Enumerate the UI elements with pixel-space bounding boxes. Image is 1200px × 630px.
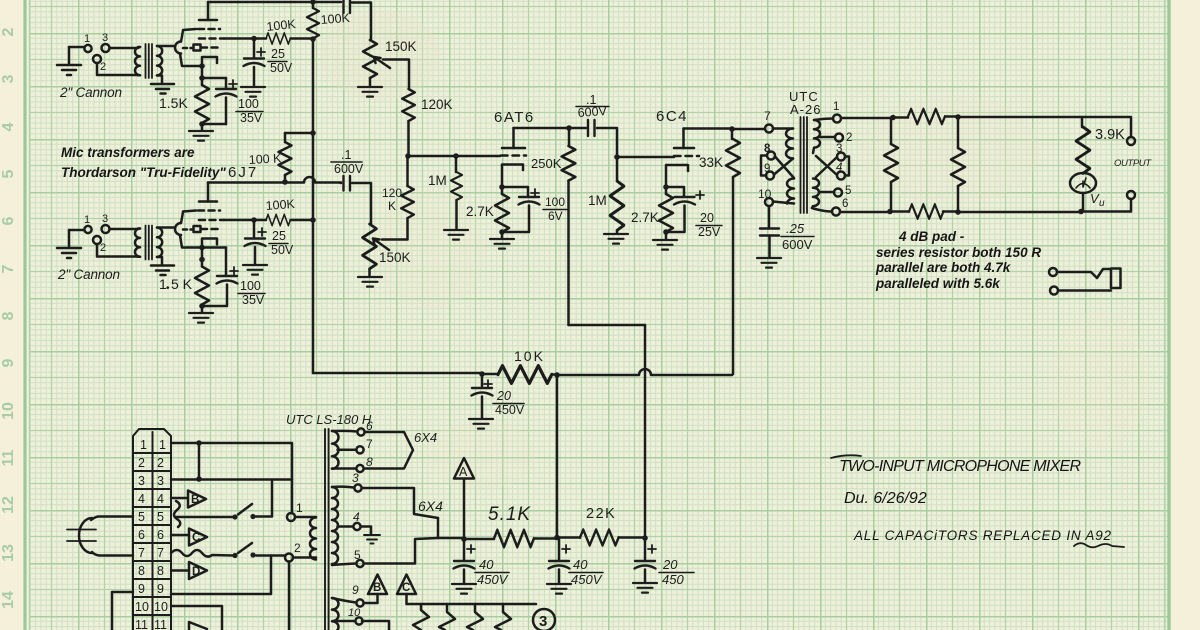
- svg-text:6: 6: [138, 528, 145, 542]
- svg-text:10: 10: [348, 607, 361, 619]
- strip outline: [133, 429, 171, 630]
- svg-text:150K: 150K: [385, 39, 417, 54]
- resistor R22 22K: [557, 536, 580, 539]
- connector J1 pin 2: [93, 55, 101, 63]
- svg-text:K: K: [388, 199, 396, 213]
- note: 4 dB pad annotation: [875, 229, 1041, 291]
- label 1.5K: [159, 95, 188, 111]
- svg-text:6: 6: [157, 528, 164, 542]
- transformer T2 core: [146, 226, 153, 260]
- label 5.1K (R21): [488, 504, 531, 525]
- resistor R3 1.5K (ch1 cathode): [201, 78, 204, 85]
- svg-text:9: 9: [764, 163, 770, 175]
- svg-text:2: 2: [294, 541, 301, 555]
- label 6X4 (top): [414, 430, 437, 445]
- capacitor C15 20/450 (right): [644, 538, 647, 560]
- wire row9 left leg: [112, 592, 133, 630]
- svg-text:3: 3: [138, 474, 145, 488]
- svg-text:2: 2: [100, 242, 106, 254]
- wire pin7 to primary: [773, 127, 793, 130]
- V4 cathode bracket: [666, 165, 688, 186]
- A triangle flag: [454, 458, 474, 539]
- V2 plate bar: [199, 200, 217, 203]
- svg-text:9: 9: [0, 358, 17, 367]
- buffer amp D: [189, 562, 207, 579]
- note: mic transformer annotation: [61, 145, 226, 180]
- svg-text:4 dB pad -: 4 dB pad -: [898, 229, 965, 244]
- wire mix bus (y156): [408, 155, 456, 158]
- V4 plate bar: [674, 147, 694, 150]
- resistor R20 10K: [482, 373, 498, 376]
- svg-text:1M: 1M: [588, 193, 607, 208]
- switch S2 (ch2 routing): [171, 550, 233, 557]
- V4 grid dashes: [674, 155, 699, 158]
- node (V4 cathode): [663, 184, 669, 190]
- svg-text:5: 5: [845, 185, 851, 197]
- svg-text:Mic transformers are: Mic transformers are: [61, 145, 195, 160]
- ground (C1): [241, 87, 265, 97]
- T3 secondary lower coil: [812, 179, 819, 209]
- wire pin1 to pad top rail: [841, 117, 893, 120]
- svg-text:6X4: 6X4: [418, 498, 443, 514]
- svg-text:35V: 35V: [242, 293, 265, 307]
- resistor R2 100K (ch1 screen, horizontal): [254, 37, 266, 40]
- pin labels J1: [84, 32, 108, 73]
- T3 pin 9 terminal: [766, 172, 774, 180]
- label 100K (R1): [320, 11, 351, 27]
- label 100K (R6): [265, 197, 296, 213]
- transformer T1 core: [146, 44, 153, 78]
- svg-text:1: 1: [84, 33, 90, 45]
- node A junction: [461, 536, 467, 542]
- T4 primary coil: [293, 517, 316, 558]
- partial amp (bottom cut): [189, 622, 207, 630]
- svg-text:5: 5: [0, 169, 17, 178]
- label Vu: [1090, 191, 1105, 209]
- mic cable entry: [79, 518, 92, 553]
- svg-text:100: 100: [238, 97, 259, 111]
- output terminal bottom: [1127, 191, 1135, 199]
- svg-text:3: 3: [539, 613, 547, 630]
- svg-text:1.5K: 1.5K: [159, 95, 188, 111]
- potentiometer VR1 150K (ch1): [363, 40, 377, 78]
- B+ bus vertical: [312, 39, 315, 373]
- transformer T2 primary coil: [135, 229, 140, 257]
- T4 sec winding 6-7-8 coil: [332, 431, 339, 469]
- wire pin2 to T2: [97, 244, 138, 257]
- svg-text:4: 4: [0, 122, 17, 131]
- secondary bracket pins 3-4: [845, 157, 849, 176]
- svg-text:11: 11: [135, 618, 148, 630]
- svg-text:ALL CAPACіTORS REPLACED IN A92: ALL CAPACіTORS REPLACED IN A92: [853, 528, 1111, 543]
- switch S1 (ch1 routing): [176, 516, 233, 519]
- label UTC A-26: [789, 89, 821, 117]
- V2 cathode lead: [180, 235, 202, 248]
- resistor R4 120K (ch1 mix): [402, 89, 415, 121]
- svg-text:11: 11: [154, 618, 167, 630]
- svg-text:3.9K: 3.9K: [1095, 127, 1125, 143]
- svg-text:7: 7: [157, 546, 164, 560]
- capacitor C11 .25/600V: [760, 229, 779, 236]
- T4 pin 4: [338, 525, 354, 528]
- svg-text:2: 2: [0, 27, 17, 36]
- svg-text:2.7K: 2.7K: [466, 204, 494, 219]
- T4 pin 7: [338, 449, 357, 452]
- svg-text:35V: 35V: [240, 111, 263, 125]
- svg-text:8: 8: [366, 455, 373, 469]
- buffer amp C: [189, 529, 207, 546]
- wire XLR2 pin1: [69, 229, 84, 232]
- label .1/600V (C9): [577, 93, 608, 120]
- svg-text:6V: 6V: [548, 209, 563, 223]
- wire VR1 wiper to R4: [383, 60, 409, 90]
- node mix bus: [405, 153, 411, 159]
- svg-text:3: 3: [352, 471, 359, 485]
- capacitor C2 100/35V (ch1 cathode bypass): [225, 78, 228, 88]
- transformer T2 secondary coil: [157, 228, 162, 257]
- T4 pin 9: [332, 598, 356, 603]
- label 20/25V (C10): [698, 211, 721, 239]
- svg-text:2: 2: [846, 132, 852, 144]
- resistor R11 250K (V3 plate load): [568, 128, 571, 146]
- svg-text:250K: 250K: [531, 156, 562, 171]
- resistor R5 100K (ch2 plate load, vertical): [284, 133, 287, 142]
- T3 pin 3 terminal: [837, 153, 845, 161]
- svg-text:150K: 150K: [379, 250, 411, 265]
- T3 pin 10 terminal: [765, 198, 773, 206]
- ground (VR1): [358, 78, 382, 97]
- svg-text:10: 10: [154, 600, 168, 614]
- wire pin10 to coil: [773, 202, 794, 204]
- svg-text:50V: 50V: [270, 61, 293, 75]
- ground (C12): [469, 419, 493, 429]
- svg-text:120: 120: [382, 186, 402, 200]
- svg-text:450: 450: [662, 572, 684, 587]
- svg-text:20: 20: [700, 211, 714, 225]
- svg-text:7: 7: [138, 546, 145, 560]
- label 100/35V ch2: [240, 279, 265, 307]
- pad top rail to output: [958, 117, 1131, 137]
- svg-text:Dи. 6/26/92: Dи. 6/26/92: [844, 490, 927, 507]
- wire row10 stub: [171, 606, 222, 630]
- svg-text:2: 2: [157, 456, 164, 470]
- output terminal top: [1127, 137, 1135, 145]
- svg-text:9: 9: [138, 582, 145, 596]
- T4 pin 10: [338, 620, 356, 623]
- coupling cap C3 (series, at top edge): [344, 0, 351, 13]
- V2 grid dashes row3: [183, 228, 192, 231]
- svg-text:.1: .1: [341, 148, 351, 162]
- ground (R10): [490, 232, 514, 249]
- V2 cathode top lead: [181, 211, 196, 224]
- wire flag C to pin10 + bottom rail: [407, 594, 537, 604]
- wire cable to row7: [92, 552, 133, 556]
- VR1 wiper arrow: [374, 57, 390, 68]
- wire row4 to amp B: [171, 497, 188, 500]
- wire pin10 down to C11: [768, 206, 771, 228]
- capacitor C14 40/450V (middle): [558, 538, 561, 561]
- V3 plate bar: [502, 147, 525, 150]
- svg-text:UTC LS-180 H: UTC LS-180 H: [286, 412, 372, 427]
- svg-text:u: u: [1099, 198, 1105, 209]
- svg-text:2: 2: [138, 456, 145, 470]
- resistor R14 33K (V4 plate load): [731, 129, 734, 139]
- svg-text:40: 40: [479, 557, 494, 572]
- svg-text:4: 4: [836, 162, 842, 174]
- left margin row numbers: [0, 27, 17, 608]
- T4 pin 5: [332, 564, 356, 566]
- svg-text:series resistor both 150 R: series resistor both 150 R: [876, 245, 1041, 260]
- label 22K (R22): [586, 506, 616, 522]
- ground (ch1 cathode): [189, 124, 213, 141]
- V1 cathode lead: [180, 54, 202, 67]
- V3 grid dashes: [501, 154, 526, 157]
- V1 grid square: [194, 45, 201, 51]
- node grid2: [251, 36, 257, 42]
- V1 grid dashes row1: [198, 28, 220, 31]
- svg-text:1: 1: [159, 438, 166, 452]
- V2 grid row2 dashes + wire: [199, 219, 224, 222]
- V2 plate lead: [207, 183, 210, 202]
- capacitor C5 25/50V (ch2 screen bypass): [253, 222, 256, 237]
- V1 plate lead to top wire: [207, 2, 210, 20]
- label 100/35V: [238, 97, 263, 125]
- wire cable to row5: [91, 517, 133, 521]
- ground (C14): [547, 584, 571, 594]
- svg-text:40: 40: [573, 557, 588, 572]
- svg-text:25: 25: [271, 47, 285, 61]
- bracket from 6X4 winding: [438, 518, 464, 538]
- V1 cathode bracket: [202, 57, 217, 65]
- label 6C4: [656, 108, 688, 125]
- connector J2 pin 2: [93, 236, 101, 244]
- wire to V4 grid: [617, 156, 674, 159]
- svg-text:1: 1: [833, 101, 839, 113]
- ground (C5): [243, 265, 267, 275]
- svg-text:8: 8: [764, 143, 771, 155]
- V1 grid row2 dashes + wire to node: [199, 37, 224, 40]
- ground (C13): [452, 584, 476, 594]
- heater flag B: [368, 575, 387, 595]
- svg-text:D: D: [192, 566, 200, 578]
- row numbers: [135, 438, 168, 630]
- svg-text:6: 6: [0, 216, 17, 225]
- T3 primary upper coil: [786, 129, 793, 159]
- svg-text:100: 100: [240, 279, 261, 293]
- ground (T4 pin 4): [361, 527, 381, 544]
- subtle paper stains: [320, 10, 1150, 490]
- label 40/450V (C14): [571, 557, 603, 587]
- wire pin3 to T2: [110, 228, 139, 231]
- svg-text:2" Cannon: 2" Cannon: [59, 85, 122, 100]
- svg-text:5: 5: [157, 510, 164, 524]
- svg-text:7: 7: [764, 109, 771, 123]
- primary center bracket: [761, 156, 767, 176]
- svg-text:3: 3: [836, 143, 842, 155]
- resistor R18 150 (series bottom): [890, 210, 909, 213]
- capacitor C6 100/35V (ch2 cathode bypass): [225, 248, 228, 276]
- label 120 K (R8): [382, 186, 402, 213]
- ground (T2 secondary bottom): [151, 257, 174, 275]
- V2 cathode arc: [175, 223, 181, 235]
- svg-text:B: B: [373, 582, 381, 594]
- ground (T1 secondary bottom): [151, 76, 174, 94]
- svg-text:8: 8: [138, 564, 145, 578]
- capacitor C8 100/6V (V3 cathode bypass): [502, 187, 528, 196]
- T3 primary lower coil: [787, 179, 794, 204]
- strain loop rows 5-6: [174, 501, 180, 527]
- svg-text:C: C: [402, 582, 410, 594]
- ch2 plate wire with hop over bus: [208, 177, 341, 182]
- ground (VR2): [358, 269, 382, 287]
- T3 pin 5 terminal: [819, 191, 834, 194]
- capacitor C1 25/50V (ch1 screen bypass): [253, 41, 256, 57]
- resistor R8 120K (ch2 mix): [401, 186, 414, 218]
- T3 pin 1 terminal: [814, 119, 833, 121]
- svg-text:2: 2: [100, 61, 106, 73]
- V1 cathode top lead: [181, 29, 196, 42]
- resistor R7 1.5K (ch2 cathode): [201, 260, 204, 267]
- wire row1 bus to T4 pin1: [199, 443, 292, 513]
- signature squiggle: [1074, 543, 1124, 547]
- V2 grid dashes row1: [198, 209, 220, 212]
- label 100K (R5): [248, 151, 282, 167]
- heater flag C: [397, 575, 416, 595]
- primary cross X: [774, 157, 794, 179]
- rectifier resistor tops (cropped at bottom): [413, 604, 429, 630]
- wire cap to pot corner: [352, 3, 371, 41]
- T4 pin 2 terminal: [285, 554, 293, 562]
- svg-text:33K: 33K: [699, 155, 723, 170]
- label OUTPUT: [1114, 158, 1152, 169]
- T4 pin 6: [332, 430, 357, 433]
- svg-text:9: 9: [352, 583, 359, 597]
- label 6J7: [228, 164, 258, 181]
- svg-text:5: 5: [354, 548, 361, 562]
- V4 plate wire: [684, 127, 733, 130]
- row dividers: [133, 453, 171, 615]
- wire XLR1 pin1: [69, 46, 84, 49]
- svg-text:450V: 450V: [495, 403, 525, 417]
- wire B+ bus corner to 10K rail: [313, 372, 482, 375]
- right margin rule: [1167, 0, 1170, 630]
- svg-text:1: 1: [296, 501, 303, 515]
- T3 pin 6 terminal: [812, 208, 832, 212]
- svg-text:11: 11: [0, 449, 17, 466]
- label 2" Cannon (ch1): [59, 85, 122, 100]
- label 2.7K (R10): [466, 204, 494, 219]
- resistor R15 150 (series top): [893, 116, 908, 119]
- potentiometer VR2 150K (ch2): [363, 224, 377, 269]
- wire cathode node down: [201, 66, 204, 78]
- wire VR2 wiper to R8: [382, 219, 408, 240]
- svg-text:8: 8: [157, 564, 164, 578]
- V1 cathode arc: [175, 42, 181, 54]
- svg-text:5 K: 5 K: [171, 276, 193, 292]
- V2 grid square: [194, 226, 201, 232]
- V3 plate top wire: [514, 127, 570, 130]
- svg-text:14: 14: [0, 591, 17, 609]
- svg-text:6C4: 6C4: [656, 108, 688, 125]
- wire to C6: [202, 248, 226, 307]
- svg-text:22K: 22K: [586, 506, 616, 522]
- label 25/50V: [270, 47, 293, 75]
- resistor R21 5.1K: [464, 538, 494, 541]
- label 2.7K (R13): [631, 210, 659, 225]
- resistor R19 3.9K (VU series): [1081, 117, 1084, 127]
- T4 pin 3: [332, 485, 354, 488]
- wire pin2 to T1: [97, 63, 138, 75]
- svg-text:10: 10: [0, 402, 17, 420]
- node on bus ch2 screen: [310, 217, 316, 223]
- svg-text:4: 4: [138, 492, 145, 506]
- T3 pin 2 terminal: [820, 136, 835, 139]
- label 10K (R20): [514, 348, 545, 364]
- pin labels J2: [84, 213, 108, 254]
- label .25/600V (C11): [782, 221, 813, 252]
- node (V2 cathode): [199, 245, 205, 251]
- resistor R13 2.7K (V4 cathode): [665, 187, 668, 194]
- svg-text:TWO-INPUT MICROPHONE MIXER: TWO-INPUT MICROPHONE MIXER: [839, 458, 1081, 475]
- label 33K (R14): [699, 155, 723, 170]
- svg-text:3: 3: [157, 474, 164, 488]
- svg-text:13: 13: [0, 544, 17, 562]
- svg-text:7: 7: [366, 437, 373, 451]
- svg-text:8: 8: [0, 311, 17, 320]
- T4 pin 1 terminal: [287, 513, 295, 521]
- wire R5 top to bus: [285, 132, 313, 135]
- wire 250K drop: horizontal jog: [569, 324, 646, 327]
- label 20/450 (C15): [662, 557, 684, 587]
- connector J1 pin 3: [102, 44, 110, 52]
- T4 winding 9-10 coil (bottom): [332, 598, 339, 630]
- 10K rail with hop over dropper: [557, 369, 732, 375]
- ground (ch2 cathode): [189, 306, 213, 323]
- svg-text:3: 3: [102, 213, 108, 225]
- connector J2 pin 1: [84, 226, 91, 233]
- svg-text:3: 3: [0, 74, 17, 83]
- T4 pin 8: [332, 467, 356, 470]
- svg-text:•: •: [166, 283, 170, 294]
- label 6X4 (lower): [418, 498, 443, 514]
- svg-text:Thordarson "Tru-Fidelity": Thordarson "Tru-Fidelity": [61, 165, 226, 180]
- transformer T1 primary coil: [135, 47, 140, 75]
- T3 pin 8 terminal: [767, 152, 775, 160]
- svg-text:12: 12: [0, 496, 17, 514]
- VU meter M1: [1070, 173, 1096, 193]
- svg-text:10: 10: [758, 187, 772, 201]
- ground (XLR-2 shell): [57, 230, 81, 258]
- node (V3 cathode): [499, 184, 505, 190]
- capacitor C12 20/450V: [481, 374, 484, 386]
- svg-text:20: 20: [662, 557, 678, 572]
- V3 plate lead: [512, 128, 515, 148]
- T3 secondary upper coil: [813, 120, 820, 153]
- svg-text:20: 20: [496, 389, 511, 403]
- label 150K (VR2): [379, 250, 411, 265]
- coupling cap C9 .1/600V (V3 to V4): [569, 127, 586, 130]
- T4 sec winding 3-4-5 coil: [332, 487, 338, 564]
- label 1M (R12): [588, 193, 607, 208]
- ground (R12): [604, 234, 628, 244]
- svg-text:3: 3: [102, 32, 108, 44]
- node screen feed: [310, 36, 316, 42]
- node top bus: [310, 0, 316, 5]
- connector J1 pin 1: [84, 45, 91, 52]
- wire S2 junction down to row9: [171, 556, 271, 595]
- ground (C15): [633, 583, 657, 593]
- svg-text:100: 100: [545, 195, 565, 209]
